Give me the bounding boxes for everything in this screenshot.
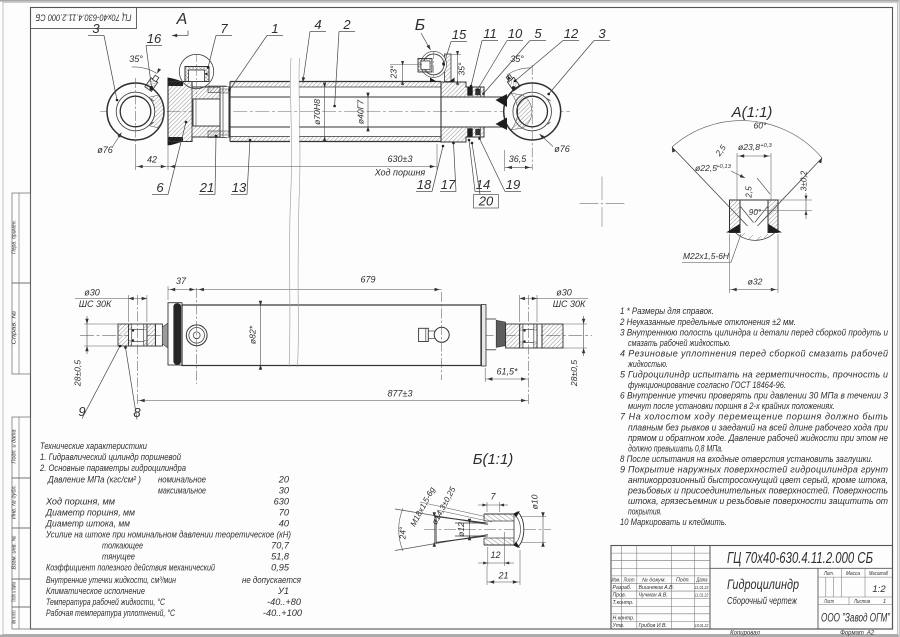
svg-text:7: 7 (220, 21, 228, 36)
svg-text:ø32: ø32 (748, 277, 763, 287)
rear grease fitting (145, 74, 160, 91)
svg-text:13: 13 (232, 180, 247, 195)
svg-text:20: 20 (278, 475, 290, 485)
svg-text:Разраб.: Разраб. (613, 585, 632, 591)
svg-text:ø23,8: ø23,8 (738, 142, 760, 152)
alignment cross mark (580, 203, 599, 205)
dim f82 (260, 305, 262, 366)
break lines (290, 58, 291, 200)
svg-text:не допускается: не допускается (242, 575, 301, 585)
margin box Перв. примен. (12, 193, 31, 283)
margin box Подп. и дата (12, 417, 31, 478)
svg-text:Б: Б (415, 17, 425, 34)
svg-text:Масштаб: Масштаб (869, 571, 889, 577)
svg-text:630±3: 630±3 (388, 154, 413, 164)
svg-text:19: 19 (506, 177, 520, 192)
dim f40f7 (367, 97, 369, 127)
svg-text:36,5: 36,5 (509, 154, 528, 164)
svg-text:40: 40 (279, 519, 290, 529)
right eye centerline (527, 295, 529, 405)
svg-text:20: 20 (478, 194, 494, 209)
svg-text:4: 4 (314, 17, 321, 32)
svg-text:7: 7 (490, 492, 496, 502)
svg-text:Инв. № дубл.: Инв. № дубл. (12, 485, 18, 519)
right ball joint eye (506, 324, 520, 348)
svg-text:35°: 35° (129, 54, 143, 64)
svg-text:Лист: Лист (823, 599, 834, 605)
svg-text:Лист: Лист (623, 577, 635, 583)
svg-text:У1: У1 (277, 586, 289, 596)
piston rod (229, 96, 290, 98)
B dim f10 (520, 516, 546, 518)
B axis (424, 529, 551, 531)
svg-text:Пров.: Пров. (613, 593, 627, 599)
left eye centerline (137, 295, 139, 405)
svg-text:6: 6 (156, 180, 164, 195)
axis centerline (100, 111, 570, 113)
svg-text:Внутренние утечки жидкости, см: Внутренние утечки жидкости, см³/мин (46, 575, 176, 585)
svg-text:24°: 24° (399, 526, 408, 540)
svg-text:70: 70 (279, 508, 290, 518)
front eye ring (504, 83, 561, 140)
svg-text:11: 11 (483, 26, 497, 41)
svg-text:Н.контр.: Н.контр. (613, 615, 635, 621)
svg-text:резьбовых и присоединительных: резьбовых и присоединительных поверхност… (627, 486, 888, 496)
cylinder body (182, 305, 481, 366)
B thread bands (484, 514, 514, 521)
svg-text:0,95: 0,95 (271, 563, 290, 573)
svg-text:8 После испытания на входные о: 8 После испытания на входные отверстия у… (620, 454, 873, 464)
svg-text:жидкостью.: жидкостью. (627, 359, 668, 369)
svg-text:антикоррозионный быстросохнущи: антикоррозионный быстросохнущий цвет сер… (628, 475, 888, 485)
svg-text:А(1:1): А(1:1) (731, 104, 773, 121)
cylinder tube walls (230, 82, 290, 88)
svg-text:Климатическое исполнение: Климатическое исполнение (46, 586, 145, 596)
svg-text:А: А (176, 11, 188, 28)
weld ring (black) (173, 303, 181, 365)
left cap disc (168, 303, 182, 365)
dim 23 deg (390, 63, 422, 65)
svg-text:Ход поршня: Ход поршня (374, 168, 426, 178)
rod-eye welds (496, 94, 508, 107)
svg-text:5 Гидроцилиндр испытать на гер: 5 Гидроцилиндр испытать на герметичность… (620, 370, 888, 380)
svg-text:ø76: ø76 (554, 144, 570, 154)
svg-text:28±0,5: 28±0,5 (73, 360, 83, 387)
svg-text:Вишняков А.В.: Вишняков А.В. (639, 585, 675, 591)
svg-text:6 Внутренние утечки проверять: 6 Внутренние утечки проверять при давлен… (620, 391, 888, 401)
svg-text:ШС 30К: ШС 30К (79, 299, 112, 309)
dim 35 deg port B (451, 53, 461, 55)
svg-text:штока, грязесъемник и резьбовы: штока, грязесъемник и резьбовые поверхно… (628, 496, 888, 506)
A drill cone 90 (740, 206, 754, 223)
B ball nose (514, 512, 524, 547)
svg-text:70,7: 70,7 (271, 541, 290, 551)
A 60deg arc (672, 121, 822, 158)
B dim f12 (469, 523, 471, 536)
A bottom spherical cap (733, 230, 777, 240)
title block (611, 546, 893, 630)
svg-text:679: 679 (360, 275, 375, 285)
svg-text:-40..+80: -40..+80 (267, 597, 302, 607)
svg-text:28±0,5: 28±0,5 (569, 360, 579, 387)
svg-text:+0,13: +0,13 (716, 164, 731, 170)
svg-text:3 Внутреннюю полость цилиндра: 3 Внутреннюю полость цилиндра и детали п… (620, 327, 888, 337)
svg-text:Перв. примен.: Перв. примен. (12, 220, 18, 254)
svg-text:30: 30 (279, 486, 290, 496)
svg-text:толкающее: толкающее (102, 541, 143, 551)
svg-text:Грибов И.В.: Грибов И.В. (639, 623, 667, 629)
svg-text:Чучман А.В.: Чучман А.В. (639, 593, 668, 599)
B nipple body (435, 516, 437, 543)
gland seals (468, 88, 473, 96)
dim 28±0,5 right (563, 323, 587, 325)
svg-text:ø82*: ø82* (248, 325, 258, 344)
svg-text:Масса: Масса (846, 571, 860, 577)
svg-text:ГЦ 70х40-630.4.11.2.000 СБ: ГЦ 70х40-630.4.11.2.000 СБ (727, 550, 873, 567)
svg-text:ø70Н8: ø70Н8 (312, 99, 322, 125)
svg-text:Ход поршня, мм: Ход поршня, мм (45, 497, 116, 507)
A countersink cone lines (672, 147, 748, 226)
svg-text:Подп.: Подп. (676, 577, 690, 583)
svg-text:35°: 35° (457, 62, 467, 76)
port B cap (418, 59, 432, 73)
B dim f14,3 (433, 516, 435, 543)
front eye boss hatch (511, 93, 532, 129)
svg-text:Утв.: Утв. (613, 623, 625, 629)
svg-text:2. Основные параметры гидроцил: 2. Основные параметры гидроцилиндра (39, 463, 186, 473)
svg-text:Инв. № подл.: Инв. № подл. (12, 610, 18, 624)
cushion cavity (193, 99, 220, 126)
svg-text:2,5: 2,5 (745, 186, 754, 199)
svg-text:3: 3 (598, 26, 606, 41)
svg-text:Листов: Листов (853, 599, 870, 605)
svg-text:ШС 30К: ШС 30К (553, 299, 586, 309)
svg-text:Сборочный чертеж: Сборочный чертеж (727, 595, 798, 607)
svg-text:18.01.22: 18.01.22 (695, 623, 709, 628)
svg-text:9 Покрытие наружных поверхност: 9 Покрытие наружных поверхностей гидроци… (620, 464, 889, 474)
svg-text:2: 2 (342, 17, 351, 32)
rear eye ring (107, 83, 164, 140)
front gland body (441, 82, 484, 97)
port A plug cap (185, 67, 209, 82)
svg-text:ООО ”Завод ОГМ”: ООО ”Завод ОГМ” (821, 611, 891, 625)
svg-text:Рабочая температура уплотнений: Рабочая температура уплотнений, °С (46, 608, 175, 618)
margin box Подп. и дата (12, 579, 31, 607)
margin box Справ. № (12, 283, 31, 374)
axis centerline 2 (80, 334, 592, 336)
svg-text:7 На холостом ходу перемещение: 7 На холостом ходу перемещение поршня до… (620, 412, 888, 422)
svg-text:1. Гидравлический цилиндр порш: 1. Гидравлический цилиндр поршневой (40, 452, 181, 462)
svg-text:10: 10 (508, 26, 523, 41)
port B boss section (445, 54, 452, 82)
right bearing rings (520, 324, 523, 330)
rear cover seal grooves (208, 86, 226, 93)
svg-text:15: 15 (452, 27, 467, 42)
svg-text:Коэффициент полезного действия: Коэффициент полезного действия механичес… (46, 563, 215, 573)
svg-text:должно превышать 0,8 МПа.: должно превышать 0,8 МПа. (628, 443, 723, 453)
svg-text:Лит.: Лит. (823, 571, 834, 577)
snap ring notches (548, 99, 551, 102)
svg-text:3±0,2: 3±0,2 (800, 170, 809, 191)
svg-text:21: 21 (199, 180, 214, 195)
margin box Взам. инв. № (12, 528, 31, 579)
piston (220, 87, 229, 137)
svg-text:минут после установки поршня в: минут после установки поршня в 2-х крайн… (628, 401, 835, 411)
svg-text:8: 8 (133, 405, 141, 420)
svg-text:ø10: ø10 (530, 494, 540, 509)
svg-text:21: 21 (497, 571, 508, 581)
svg-text:9: 9 (78, 404, 85, 419)
svg-text:Подп. и дата: Подп. и дата (12, 582, 18, 602)
svg-text:23°: 23° (389, 65, 399, 80)
svg-text:Взам. инв. №: Взам. инв. № (12, 535, 18, 569)
svg-text:функционирование согласно ГОСТ: функционирование согласно ГОСТ 18464-96. (628, 380, 786, 390)
svg-text:М22х1,5-6Н: М22х1,5-6Н (683, 251, 730, 261)
svg-text:тянущее: тянущее (102, 552, 135, 562)
svg-text:11.01.22: 11.01.22 (695, 593, 709, 598)
svg-text:51,8: 51,8 (271, 552, 290, 562)
svg-text:37: 37 (176, 276, 187, 286)
svg-text:Дата: Дата (696, 577, 708, 583)
rear cover welds (168, 78, 184, 87)
svg-text:61,5*: 61,5* (496, 367, 518, 377)
port A external circles (186, 325, 207, 346)
svg-text:ø40Г7: ø40Г7 (356, 99, 366, 124)
dim f70H8 (324, 87, 326, 137)
svg-text:Справ. №: Справ. № (12, 310, 18, 344)
svg-text:плавным без рывков и заеданий: плавным без рывков и заеданий на всей дл… (628, 422, 888, 432)
rear cover body (168, 82, 230, 142)
margin box Инв. № дубл. (12, 478, 31, 528)
port B fitting circles (421, 51, 447, 77)
svg-text:Гидроцилиндр: Гидроцилиндр (727, 576, 799, 592)
svg-text:3: 3 (92, 21, 100, 36)
svg-text:1 * Размеры для справок.: 1 * Размеры для справок. (620, 306, 714, 316)
svg-text:+0,3: +0,3 (760, 143, 772, 149)
A weld triangles (726, 224, 740, 233)
left bearing rings (129, 324, 132, 330)
rear snap ring notches (151, 99, 154, 102)
front grease fitting (505, 74, 520, 91)
svg-text:ø12: ø12 (456, 522, 466, 537)
svg-text:1:2: 1:2 (872, 584, 886, 595)
svg-text:покрытия.: покрытия. (628, 507, 662, 517)
left ball joint eye (118, 324, 129, 346)
svg-text:Т.контр.: Т.контр. (613, 600, 634, 606)
port B external marker (434, 327, 449, 342)
svg-text:Температура рабочей жидкости,: Температура рабочей жидкости, °С (46, 597, 165, 607)
svg-text:17: 17 (441, 177, 456, 192)
svg-text:12: 12 (490, 550, 500, 560)
svg-text:2 Неуказанные предельные откло: 2 Неуказанные предельные отклонения ±2 м… (619, 317, 796, 327)
svg-text:18: 18 (417, 177, 432, 192)
svg-text:ГЦ 70х40-630.4.11.2.000 СБ: ГЦ 70х40-630.4.11.2.000 СБ (36, 12, 132, 23)
top-left document stamp box (31, 8, 137, 29)
svg-text:-40..+100: -40..+100 (263, 608, 303, 618)
A dim 3±0,2 (778, 199, 812, 201)
svg-text:№ докум.: № докум. (642, 577, 666, 583)
svg-text:1: 1 (883, 599, 886, 605)
svg-text:ø30: ø30 (84, 288, 100, 298)
svg-text:Подп. и дата: Подп. и дата (12, 430, 18, 464)
svg-text:11.01.22: 11.01.22 (695, 585, 709, 590)
svg-text:Диаметр поршня, мм: Диаметр поршня, мм (45, 508, 136, 518)
svg-text:877±3: 877±3 (388, 389, 413, 399)
B nose notches (514, 511, 521, 518)
svg-text:Давление МПа (кгс/см² ): Давление МПа (кгс/см² ) (47, 475, 141, 485)
port B welds (430, 78, 437, 82)
svg-text:Усилие на штоке при номинально: Усилие на штоке при номинальном давлении… (45, 530, 291, 540)
svg-text:максимальное: максимальное (158, 486, 206, 496)
svg-text:10 Маркировать и клеймить.: 10 Маркировать и клеймить. (620, 517, 727, 527)
svg-text:12: 12 (564, 26, 579, 41)
svg-text:А2: А2 (866, 630, 875, 636)
svg-text:2,5: 2,5 (713, 143, 728, 159)
svg-text:прямом и обратном ходе. Давлен: прямом и обратном ходе. Давление рабочей… (628, 433, 888, 443)
svg-text:90°: 90° (749, 208, 762, 217)
svg-text:Копировал: Копировал (730, 630, 760, 636)
svg-text:Диаметр штока, мм: Диаметр штока, мм (45, 519, 131, 529)
svg-text:ø76: ø76 (97, 145, 113, 155)
svg-text:Изм.: Изм. (612, 577, 621, 583)
svg-text:Технические характеристики: Технические характеристики (40, 441, 147, 451)
svg-text:16: 16 (147, 31, 162, 46)
svg-text:ø30: ø30 (556, 288, 572, 298)
svg-text:4 Резиновые уплотнения перед с: 4 Резиновые уплотнения перед сборкой сма… (620, 348, 888, 358)
svg-text:смазать рабочей жидкостью.: смазать рабочей жидкостью. (628, 338, 731, 348)
right end: ring + boot cones (482, 305, 487, 367)
left taper collar (162, 323, 168, 348)
svg-text:1: 1 (271, 21, 278, 36)
margin box Инв. № подл. (12, 607, 31, 629)
break lines over view 2 (289, 200, 291, 367)
A port block (730, 200, 741, 233)
B cone extension fan (395, 509, 488, 525)
rear eye centers (135, 78, 137, 145)
svg-text:5: 5 (534, 26, 542, 41)
sheet edge bands (0, 0, 900, 2)
dim 28±0,5 left (84, 323, 118, 325)
svg-text:Формат: Формат (840, 630, 864, 636)
port A boss circle (179, 54, 213, 88)
svg-text:Б(1:1): Б(1:1) (473, 451, 514, 468)
svg-text:ø22,5: ø22,5 (695, 163, 717, 173)
svg-text:номинальное: номинальное (158, 475, 206, 485)
rear eye boss section hatch (149, 95, 164, 128)
svg-text:630: 630 (274, 497, 290, 507)
svg-text:42: 42 (147, 155, 157, 165)
